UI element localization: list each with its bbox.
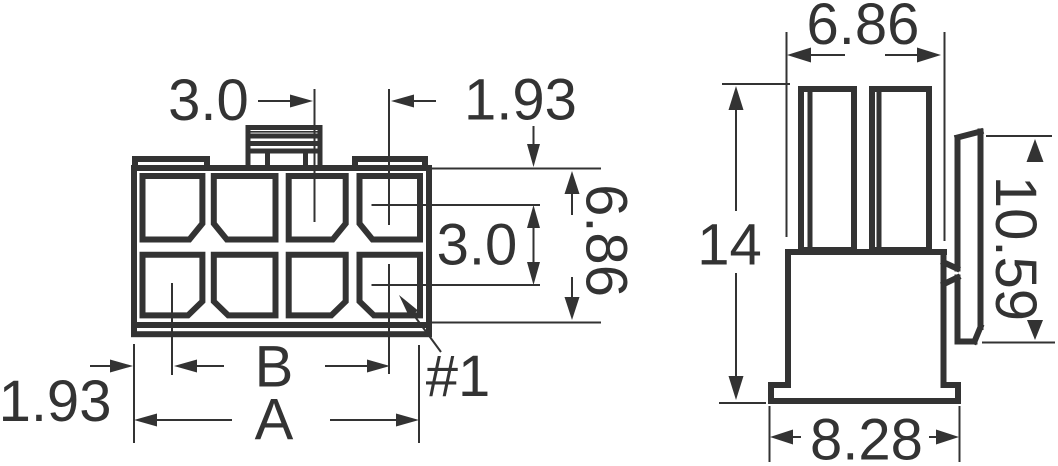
arrowhead 1.93 top left-pointing [391,95,414,108]
side view latch top slant [958,132,981,138]
side view left blade [801,89,854,250]
cavity row2 col4 [360,255,421,316]
latch divider right [303,151,308,168]
side view latch left edge upper [955,138,961,269]
arrowhead 6.86 down [565,297,580,320]
extension line pin4 centerline upper [388,89,390,225]
arrowhead A right [396,414,419,427]
right mounting tab [355,159,425,168]
cavity row1 col3 [289,176,346,240]
ext line 14 top [722,83,790,85]
extension line pin8 centerline lower [388,264,390,374]
latch rib line 1 [248,131,320,133]
arrowhead 8.28 left [770,430,793,445]
dim 8.28 right shaft [929,436,937,438]
svg-text:6.86: 6.86 [574,184,639,297]
leader 10.59 bottom [982,342,1055,344]
side view hinge upper diagonal [944,263,957,269]
side view left blade inner line [808,92,813,249]
cavity row2 col3 [289,255,346,316]
dim 6.86 up arrow shaft [571,193,573,215]
svg-text:10.59: 10.59 [983,176,1048,321]
latch divider left [265,151,270,168]
side view hinge lower diagonal [944,278,958,285]
dim B left shaft [196,365,224,367]
side view latch bottom edge [958,339,975,345]
dim 6.86 down arrow shaft [571,277,573,299]
dim A right shaft [330,419,397,421]
leader line bottom face [432,322,601,324]
side view body left edge [785,252,791,385]
arrowhead A left [134,414,157,427]
dim 6.86 left shaft [809,54,845,56]
arrowhead 14 up [729,86,744,110]
svg-text:3.0: 3.0 [437,213,518,278]
ext line 6.86 left [786,32,788,237]
dim 1.93 top arrow shaft [411,100,436,102]
arrowhead 10.59 up [1027,139,1044,162]
arrowhead 1.93 bottom right-pointing [110,360,133,373]
side view latch bottom chamfer [975,327,981,342]
svg-text:14: 14 [697,213,762,278]
arrowhead #1 leader [399,295,418,317]
leader 10.59 top [986,135,1052,137]
extension line pin3 centerline [314,89,316,222]
leader line top face [432,168,601,170]
arrowhead 3.0 vertical up [527,205,540,228]
ext line 14 bottom [719,402,766,404]
body bottom inner wall line [134,322,429,328]
leader line row2 center [372,284,541,286]
ext line 8.28 left [769,406,771,462]
side view right blade [872,89,929,250]
svg-text:#1: #1 [426,344,491,409]
dim 8.28 left shaft [792,436,801,438]
svg-text:8.28: 8.28 [810,408,923,466]
arrowhead 6.86 left [787,48,811,63]
side view right blade inner line [877,92,882,249]
svg-text:1.93: 1.93 [464,68,577,133]
latch rib line 2 [248,134,320,139]
side view body top edge [788,249,944,255]
dim 14 upper shaft [735,108,737,211]
arrowhead 3.0 top right-pointing [290,95,313,108]
cavity row1 col2 [214,176,276,240]
dim 3.0 vertical shaft [533,227,535,263]
leader #1 tail [402,299,441,352]
dim B right shaft [325,365,368,367]
dim 1.93 bottom shaft [90,365,111,367]
extension line body left edge [133,344,135,443]
side view latch right edge [978,132,984,328]
arrowhead 1.93 down-pointing [527,144,540,167]
dim 14 lower shaft [735,273,737,378]
svg-text:3.0: 3.0 [168,68,249,133]
side view flange [771,385,958,401]
dim 1.93 down arrow shaft [533,126,535,147]
cavity row1 col4 [360,176,421,240]
arrowhead 8.28 right [936,430,959,445]
arrowhead B left [174,360,197,373]
center latch block [248,128,320,169]
latch rib line 4 [248,149,320,154]
left mounting tab [135,159,207,168]
dim 3.0 top arrow shaft [258,100,293,102]
connector body (front view) [134,168,429,334]
ext line 8.28 right [959,406,961,462]
svg-text:1.93: 1.93 [0,369,111,434]
arrowhead 6.86 right [917,48,941,63]
cavity row1 col1 [143,176,203,240]
arrowhead B right [367,360,390,373]
arrowhead 3.0 vertical down [527,262,540,285]
leader line row1 center [372,204,541,206]
ext line 6.86 right [944,32,946,241]
latch rib line 3 [248,141,320,146]
svg-text:A: A [255,388,294,453]
extension line pin5 centerline [171,283,173,375]
svg-text:6.86: 6.86 [807,0,920,57]
cavity row2 col1 [143,255,203,316]
arrowhead 14 down [729,376,744,400]
side view latch left edge lower [955,278,961,342]
arrowhead 6.86 up [565,171,580,194]
dim A left shaft [156,419,232,421]
arrowhead 10.59 down [1027,320,1043,340]
extension line A right [418,345,420,443]
cavity row2 col2 [214,255,276,316]
side view body right edge [941,252,947,385]
dim 6.86 right shaft [885,54,919,56]
